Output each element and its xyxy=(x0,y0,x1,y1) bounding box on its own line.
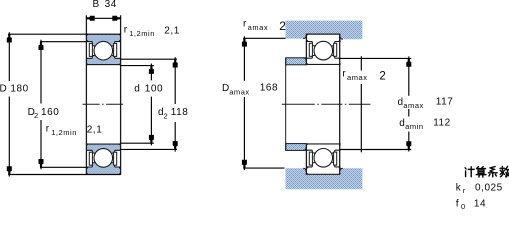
fillet ra shaft top xyxy=(303,58,306,61)
svg-text:2: 2 xyxy=(164,111,169,120)
arrowhead D2 up xyxy=(39,42,44,50)
svg-text:d: d xyxy=(134,84,140,95)
svg-text:amax: amax xyxy=(403,101,424,110)
svg-text:r: r xyxy=(342,69,346,80)
svg-text:100: 100 xyxy=(145,84,163,95)
arrowhead B left xyxy=(86,16,94,21)
dimension line D upper part xyxy=(8,32,10,81)
fillet ra housing top-right xyxy=(340,36,343,39)
dimension line da middle part xyxy=(408,109,410,117)
bearing left face line lower xyxy=(305,144,307,175)
hanzi 算 xyxy=(476,167,486,177)
arrowhead d down xyxy=(149,135,154,143)
bearing top edge line xyxy=(306,33,339,35)
svg-text:14: 14 xyxy=(474,198,486,209)
fillet ra housing bottom-left xyxy=(303,168,306,171)
dimension line D2 upper part xyxy=(40,40,42,104)
bearing left face line + B extension xyxy=(85,15,87,175)
bearing bottom edge line + D extension line xyxy=(8,174,120,176)
shaft end face line xyxy=(285,58,287,151)
svg-text:2: 2 xyxy=(34,111,39,120)
extension line d bottom xyxy=(121,142,154,144)
dimension line d2 lower part xyxy=(174,122,176,152)
svg-text:0,025: 0,025 xyxy=(475,182,503,193)
dimension line Da lower part xyxy=(243,97,245,170)
svg-text:2,1: 2,1 xyxy=(87,125,103,136)
svg-text:117: 117 xyxy=(436,97,454,108)
arrowhead Da down xyxy=(242,160,247,168)
svg-text:2,1: 2,1 xyxy=(164,25,180,36)
svg-text:34: 34 xyxy=(105,0,117,10)
bearing lower half-section (mirrored) xyxy=(86,144,120,175)
svg-text:160: 160 xyxy=(41,107,59,118)
arrowhead d up xyxy=(149,66,154,74)
bearing left face line upper xyxy=(305,34,307,65)
hanzi 计 xyxy=(465,167,474,177)
shaft axis centerline xyxy=(282,103,371,105)
shaft shoulder top xyxy=(286,58,307,65)
dimension line d lower part xyxy=(150,97,152,146)
bearing lower half-section (outline, mirrored) xyxy=(306,143,340,174)
damin line lower part xyxy=(360,84,362,152)
extension line da top xyxy=(340,57,412,59)
bearing axis centerline xyxy=(83,103,126,105)
svg-text:k: k xyxy=(456,182,462,193)
extension line d top xyxy=(121,65,154,67)
shaft shoulder bottom xyxy=(286,144,307,151)
svg-text:1,2min: 1,2min xyxy=(51,128,77,137)
extension line D2 top xyxy=(40,41,86,43)
arrowhead da up xyxy=(406,58,411,66)
svg-text:1,2min: 1,2min xyxy=(129,29,155,38)
svg-text:r: r xyxy=(243,19,247,30)
bearing upper half-section (outline) xyxy=(306,34,340,65)
arrowhead d2 up xyxy=(173,59,178,67)
bearing right face line xyxy=(339,34,341,175)
arrowhead D2 down xyxy=(39,159,44,167)
svg-text:r: r xyxy=(463,186,466,195)
bearing top edge line + D extension line xyxy=(8,33,120,35)
extension line Da bottom xyxy=(243,167,284,169)
housing section bottom (with shoulders) xyxy=(286,168,363,189)
svg-text:r: r xyxy=(124,25,128,36)
svg-text:D: D xyxy=(0,83,7,94)
housing section top (with shoulders) xyxy=(286,21,363,40)
arrowhead D down xyxy=(7,166,12,174)
arrowhead Da up xyxy=(242,38,247,46)
dimension line B xyxy=(86,17,120,19)
extension line Da top xyxy=(243,37,285,39)
arrowhead D up xyxy=(7,34,12,42)
extension line d2 bottom xyxy=(121,148,177,150)
arrowhead B right xyxy=(112,16,120,21)
svg-text:2: 2 xyxy=(279,19,286,33)
svg-text:0: 0 xyxy=(461,202,466,211)
dimension line d upper part xyxy=(150,64,152,81)
bearing right face line + B extension xyxy=(120,15,122,175)
arrowhead d2 down xyxy=(173,141,178,149)
svg-text:amin: amin xyxy=(405,122,423,131)
svg-text:180: 180 xyxy=(10,83,28,94)
svg-text:r: r xyxy=(46,124,50,135)
extension line D2 bottom xyxy=(40,166,86,168)
dimension line Da upper part xyxy=(243,36,245,81)
svg-text:2: 2 xyxy=(379,70,386,82)
svg-text:amax: amax xyxy=(347,73,368,82)
svg-text:118: 118 xyxy=(171,107,189,118)
arrowhead da down xyxy=(406,141,411,149)
svg-text:B: B xyxy=(93,0,100,10)
dimension line D2 lower part xyxy=(40,120,42,169)
svg-text:amax: amax xyxy=(229,87,250,96)
svg-text:112: 112 xyxy=(433,118,451,129)
fillet ra housing top-left xyxy=(303,36,306,39)
bearing upper half-section (outer ring, ball, shields, inner ring) xyxy=(86,34,120,65)
dimension line D lower part xyxy=(8,97,10,177)
damin line upper part xyxy=(360,56,362,70)
extension line da bottom xyxy=(340,149,412,151)
fillet ra shaft bottom xyxy=(303,148,306,151)
svg-text:amax: amax xyxy=(248,23,269,32)
bearing bottom edge line xyxy=(306,173,339,175)
svg-text:168: 168 xyxy=(260,83,278,94)
svg-text:f: f xyxy=(456,197,459,209)
dimension line da lower part xyxy=(408,132,410,152)
hanzi 系 xyxy=(488,167,497,177)
fillet ra housing bottom-right xyxy=(340,168,343,171)
dimension line d2 upper part xyxy=(174,57,176,104)
extension line d2 top xyxy=(121,58,177,60)
dimension line da upper part xyxy=(408,56,410,95)
hanzi 数 xyxy=(500,167,509,177)
